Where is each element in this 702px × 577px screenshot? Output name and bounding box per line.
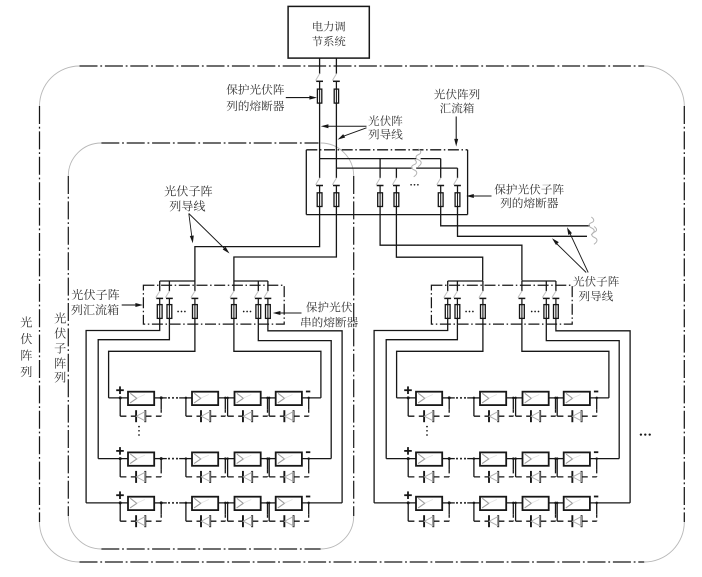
bypass diode right-A-2 [473, 397, 515, 423]
PV module right-A-4 [564, 392, 590, 405]
disconnect+fuse column 4 (protects PV sub-array) [392, 178, 399, 207]
PV sub-array boundary corner arcs [68, 143, 353, 549]
break mark on bus B [412, 159, 417, 177]
plus terminal left-B [116, 447, 124, 455]
bypass diode left-A-3 [226, 397, 268, 423]
PV module right-A-2 [480, 392, 506, 405]
wire bus to string disconnect 5 (left) [257, 281, 259, 291]
bypass diode right-A-3 [514, 397, 556, 423]
wire module2-3 left-C [218, 502, 234, 504]
wire fuse 4 to box bottom [395, 207, 397, 215]
wire fuse 3 to box bottom [379, 207, 381, 215]
junction node right-B-1 [448, 457, 451, 460]
PV array boundary corner arcs [40, 66, 685, 562]
disconnect+fuse F2 (protects PV array) [332, 74, 339, 104]
plus terminal left-A [116, 386, 124, 394]
wire+ellipsis module1-2 right-A [442, 397, 480, 399]
junction node right-A-0 [407, 396, 410, 399]
disconnect+fuse string 4 (protects PV string) (left) [230, 291, 237, 319]
wire module4 to right loop left-B [302, 458, 331, 460]
wire module3-4 left-B [261, 458, 276, 460]
wire module4 to right loop right-A [590, 397, 609, 399]
vertical ellipsis between string rows (left) [138, 426, 140, 436]
wire string fuse 4 to box bottom (right) [521, 318, 523, 324]
PV array combiner box outline [306, 150, 467, 215]
wire bus to string disconnect 6 (right) [555, 281, 557, 291]
wire string fuse 5 to box bottom (right) [545, 318, 547, 324]
loop wire string1 right (col6) (right) [556, 324, 630, 503]
PV array boundary (dash-dot frame) top edge [80, 65, 645, 67]
sub-box bus left (left) [160, 280, 195, 282]
label: guangfu zizhenlie huiliuxiang [71, 289, 119, 315]
wire bus to disconnect, column 3 [379, 159, 381, 178]
wire string fuse 1 to box bottom (right) [447, 318, 449, 324]
PV sub-array boundary top edge [101, 142, 318, 144]
bus B (negative) in array combiner box [336, 167, 457, 169]
leader arrow to feed wire B [189, 214, 230, 254]
long wire to further sub-arrays (top) [441, 215, 590, 226]
bypass diode left-B-2 [185, 457, 227, 483]
bypass diode right-A-1 [407, 397, 451, 423]
loop wire string2 right (col5) (right) [546, 324, 619, 459]
wire+ellipsis module1-2 right-C [442, 502, 480, 504]
wire module2-3 left-B [218, 458, 234, 460]
plus terminal right-A [404, 386, 412, 394]
wire module3-4 right-C [549, 502, 564, 504]
leader arrow to wire 2 [338, 128, 367, 140]
disconnect+fuse string 2 (protects PV string) (right) [453, 291, 460, 319]
minus terminal left-B [306, 451, 310, 453]
loop wire string3 right (col4) (left) [234, 324, 321, 398]
leader arrow to feed wire A [189, 214, 194, 244]
minus terminal right-A [594, 391, 598, 393]
wire module2-3 right-A [506, 397, 522, 399]
bypass diode left-A-2 [185, 397, 227, 423]
loop wire string1 left (col1 down-left) (left) [86, 324, 160, 503]
wire bus to string disconnect 4 (right) [521, 281, 523, 291]
string row left-A entry wire from left [109, 397, 128, 399]
ellipsis strings right group (right) [531, 311, 540, 313]
PV module left-C-2 [192, 497, 218, 510]
vertical label: PV sub-array (guangfu zi zhenlie) [54, 312, 65, 382]
PV module left-B-3 [235, 452, 261, 465]
disconnect+fuse string 5 (protects PV string) (left) [254, 291, 261, 319]
disconnect+fuse string 1 (protects PV string) (left) [156, 291, 163, 319]
loop wire string3 left (col3) (right) [397, 324, 483, 398]
PV module right-C-4 [564, 497, 590, 510]
wire module4 to right loop left-A [302, 397, 321, 399]
disconnect+fuse string 6 (protects PV string) (right) [552, 291, 559, 319]
ellipsis strings left group (right) [465, 311, 474, 313]
bypass diode right-C-1 [407, 502, 451, 528]
leader arrow to F1 [286, 96, 317, 100]
wire string fuse 1 to box bottom (left) [159, 318, 161, 324]
bypass diode left-C-2 [185, 502, 227, 528]
vertical label: PV array (guangfu zhenlie) [21, 316, 32, 377]
bypass diode right-B-1 [407, 457, 451, 483]
bypass diode left-B-3 [226, 457, 268, 483]
bypass diode right-B-3 [514, 457, 556, 483]
wire bus to string disconnect 4 (left) [233, 281, 235, 291]
wire module2-3 right-B [506, 458, 522, 460]
bypass diode left-C-3 [226, 502, 268, 528]
loop wire string2 left (col2) (left) [98, 324, 169, 459]
bypass diode left-A-4 [268, 397, 310, 423]
long wire to further sub-arrays (bottom) [458, 215, 588, 237]
wire from U1 to fuse F1 [319, 58, 321, 74]
disconnect+fuse column 3 (protects PV sub-array) [376, 178, 383, 207]
PV module left-C-3 [235, 497, 261, 510]
wire string fuse 6 to box bottom (right) [555, 318, 557, 324]
wire+ellipsis module1-2 right-B [442, 458, 480, 460]
leader arrow to left sub-box [122, 303, 143, 307]
wire module3-4 right-B [549, 458, 564, 460]
sub-box bus right (right) [522, 280, 556, 282]
bypass diode right-C-2 [473, 502, 515, 528]
string row right-C entry wire from left [374, 502, 416, 504]
junction node right-A-1 [448, 396, 451, 399]
disconnect+fuse column 2 (protects PV sub-array) [332, 178, 339, 207]
sub-array feed wire D (col4 to right sub-box) [396, 215, 482, 281]
junction node right-B-0 [407, 457, 410, 460]
PV module left-A-2 [192, 392, 218, 405]
disconnect+fuse string 4 (protects PV string) (right) [518, 291, 525, 319]
PV module right-C-2 [480, 497, 506, 510]
wire F1 to combiner box [319, 103, 321, 159]
wire module4 to right loop right-B [590, 458, 619, 460]
wire module2-3 right-C [506, 502, 522, 504]
label: baohu guangfu zizhenlie de rongduanqi [495, 184, 564, 209]
wire string fuse 3 to box bottom (left) [194, 318, 196, 324]
wire bus to string disconnect 6 (left) [267, 281, 269, 291]
label: guangfu zhenlie daoxian [368, 115, 402, 139]
wire F2 to combiner box [335, 103, 337, 168]
leader arrow to wire 1 [321, 124, 367, 128]
PV module right-B-1 [416, 452, 442, 465]
PV module right-C-1 [416, 497, 442, 510]
junction node left-C-1 [160, 501, 163, 504]
junction node right-C-1 [448, 501, 451, 504]
disconnect+fuse column 6 (protects PV sub-array) [454, 178, 461, 207]
minus terminal right-B [594, 451, 598, 453]
wire string fuse 3 to box bottom (right) [482, 318, 484, 324]
ellipsis strings right group (left) [243, 311, 252, 313]
bypass diode right-C-4 [556, 502, 598, 528]
junction node left-A-1 [160, 396, 163, 399]
PV module right-B-2 [480, 452, 506, 465]
PV module left-A-3 [235, 392, 261, 405]
loop wire string2 right (col5) (left) [258, 324, 331, 459]
label: baohu guangfu zhenlie de rongduanqi [227, 84, 285, 111]
wire string fuse 2 to box bottom (left) [168, 318, 170, 324]
label: guangfu zizhenlie daoxian (left) [165, 185, 213, 211]
wire+ellipsis module1-2 left-C [154, 502, 192, 504]
disconnect+fuse string 2 (protects PV string) (left) [165, 291, 172, 319]
PV module right-C-3 [523, 497, 549, 510]
wire bus to disconnect, column 1 [319, 159, 321, 178]
wire fuse 1 to box bottom [319, 207, 321, 215]
PV sub-array boundary bottom edge [101, 548, 320, 550]
bypass diode right-B-4 [556, 457, 598, 483]
loop wire string1 left (col1 down-left) (right) [374, 324, 448, 503]
wire bus to string disconnect 3 (right) [482, 281, 484, 291]
ellipsis between column 4 and 5 [410, 184, 419, 186]
break mark on bottom long wire [592, 227, 597, 245]
disconnect+fuse F1 (protects PV array) [316, 74, 323, 104]
vertical ellipsis between string rows (right) [426, 426, 428, 436]
wire bus to string disconnect 1 (right) [447, 281, 449, 291]
wire module3-4 left-C [261, 502, 276, 504]
PV module left-B-2 [192, 452, 218, 465]
wire bus to disconnect, column 2 [335, 168, 337, 178]
disconnect+fuse string 5 (protects PV string) (right) [542, 291, 549, 319]
wire+ellipsis module1-2 left-A [154, 397, 192, 399]
PV sub-array combiner box outline (left) [143, 285, 284, 324]
bypass diode left-C-1 [119, 502, 163, 528]
label: guangfu zizhenlie daoxian (right) [573, 276, 619, 301]
sub-box bus right (left) [234, 280, 268, 282]
break mark on top long wire [589, 217, 594, 235]
disconnect+fuse string 1 (protects PV string) (right) [444, 291, 451, 319]
bypass diode right-A-4 [556, 397, 598, 423]
ellipsis strings left group (left) [177, 311, 185, 313]
leader arrow to top long wire [567, 227, 588, 272]
PV sub-array combiner box outline (right) [431, 285, 572, 324]
wire string fuse 5 to box bottom (left) [257, 318, 259, 324]
bypass diode left-A-1 [119, 397, 163, 423]
junction node left-C-0 [119, 501, 122, 504]
horizontal ellipsis: more sub-arrays [640, 433, 651, 435]
minus terminal left-A [306, 391, 310, 393]
wire module4 to right loop left-C [302, 502, 342, 504]
wire bus to disconnect, column 5 [440, 159, 442, 178]
loop wire string3 right (col4) (right) [522, 324, 609, 398]
PV array boundary bottom edge [80, 561, 645, 563]
wire bus to string disconnect 1 (left) [159, 281, 161, 291]
junction node left-B-1 [160, 457, 163, 460]
junction node left-A-0 [119, 396, 122, 399]
bypass diode right-C-3 [514, 502, 556, 528]
wire string fuse 6 to box bottom (left) [267, 318, 269, 324]
loop wire string3 left (col3) (left) [109, 324, 195, 398]
loop wire string1 right (col6) (left) [268, 324, 342, 503]
bus A (positive) in array combiner box [320, 158, 441, 160]
leader arrow to combiner box top [454, 117, 458, 147]
PV sub-array boundary right edge [353, 176, 355, 516]
wire fuse 2 to box bottom [335, 207, 337, 215]
wire bus to string disconnect 2 (right) [456, 281, 458, 291]
PV module right-B-4 [564, 452, 590, 465]
wire module2-3 left-A [218, 397, 234, 399]
wire bus to string disconnect 3 (left) [194, 281, 196, 291]
bypass diode left-B-1 [119, 457, 163, 483]
PV module right-A-3 [523, 392, 549, 405]
PV array boundary right edge [683, 106, 685, 522]
wire fuse 5 to box bottom [440, 207, 442, 215]
PV sub-array boundary left edge [67, 176, 69, 516]
bypass diode right-B-2 [473, 457, 515, 483]
wire module3-4 right-A [549, 397, 564, 399]
wire bus to string disconnect 5 (right) [545, 281, 547, 291]
PV module left-B-4 [276, 452, 302, 465]
minus terminal left-C [306, 496, 310, 498]
sub-box bus left (right) [448, 280, 483, 282]
disconnect+fuse string 3 (protects PV string) (right) [479, 291, 486, 319]
junction node left-B-0 [119, 457, 122, 460]
string row left-C entry wire from left [86, 502, 128, 504]
disconnect+fuse string 3 (protects PV string) (left) [191, 291, 198, 319]
leader arrow to bottom long wire [552, 238, 586, 272]
PV array boundary left edge [39, 106, 41, 522]
string row left-B entry wire from left [98, 458, 128, 460]
disconnect+fuse string 6 (protects PV string) (left) [264, 291, 271, 319]
disconnect+fuse column 1 (protects PV sub-array) [316, 178, 323, 207]
PV module right-B-3 [523, 452, 549, 465]
string row right-B entry wire from left [386, 458, 416, 460]
junction node right-C-0 [407, 501, 410, 504]
PV module right-A-1 [416, 392, 442, 405]
PV module left-B-1 [128, 452, 154, 465]
leader arrow to string fuse 6 [273, 311, 302, 315]
wire string fuse 2 to box bottom (right) [456, 318, 458, 324]
PV module left-C-1 [128, 497, 154, 510]
power conditioning system box U1 [288, 6, 369, 58]
wire string fuse 4 to box bottom (left) [233, 318, 235, 324]
bypass diode left-B-4 [268, 457, 310, 483]
wire module3-4 left-A [261, 397, 276, 399]
wire fuse 6 to box bottom [457, 207, 459, 215]
break mark on bus A [416, 149, 421, 167]
wire bus to string disconnect 2 (left) [168, 281, 170, 291]
disconnect+fuse column 5 (protects PV sub-array) [437, 178, 444, 207]
leader arrow to column 6 fuse [466, 194, 491, 198]
sub-array feed wire C (col3 to right sub-box) [380, 215, 522, 281]
plus terminal right-B [404, 447, 412, 455]
minus terminal right-C [594, 496, 598, 498]
wire+ellipsis module1-2 left-B [154, 458, 192, 460]
plus terminal left-C [116, 491, 124, 499]
loop wire string2 left (col2) (right) [386, 324, 457, 459]
wire bus to disconnect, column 6 [457, 168, 459, 178]
wire module4 to right loop right-C [590, 502, 630, 504]
label: dianli tiaojie xitong [312, 21, 345, 46]
string row right-A entry wire from left [397, 397, 416, 399]
PV module left-A-4 [276, 392, 302, 405]
PV module left-A-1 [128, 392, 154, 405]
plus terminal right-C [404, 491, 412, 499]
wire from U1 to fuse F2 [335, 58, 337, 74]
sub-array feed wire A (col1 to left sub-box) [195, 215, 320, 281]
label: guangfu zhenlie huiliuxiang [434, 89, 479, 114]
label: baohu guangfu chuan de rongduanqi [301, 302, 358, 328]
sub-array feed wire B (col2 to left sub-box) [234, 215, 337, 281]
wire bus to disconnect, column 4 [395, 168, 397, 178]
PV module left-C-4 [276, 497, 302, 510]
bypass diode left-C-4 [268, 502, 310, 528]
